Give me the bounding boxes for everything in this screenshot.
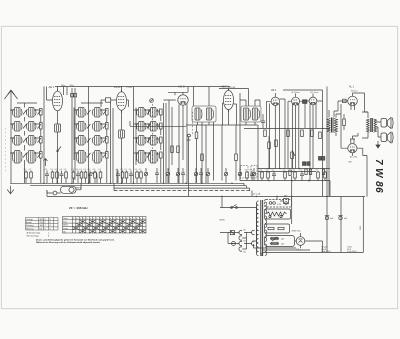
wave trap dashed box 1 <box>241 166 249 179</box>
tube V4 ABC1 <box>224 88 234 112</box>
svg-text:a: a <box>123 218 124 220</box>
coil bank 3 (oscillator coils) <box>137 108 163 164</box>
svg-text:0,1: 0,1 <box>139 169 142 171</box>
svg-text:Druck- und Ziehknopfgeräte gel: Druck- und Ziehknopfgeräte gelten für Vo… <box>36 238 115 241</box>
tube V1 AH1 <box>53 89 63 113</box>
tube V6 ACF <box>292 97 300 105</box>
capacitor under V2 <box>119 130 125 138</box>
svg-text:0,1: 0,1 <box>300 169 303 171</box>
IF transformer IFT2 <box>241 106 261 122</box>
wire detector lines <box>258 87 330 253</box>
coupling resistor <box>343 119 346 126</box>
wires tube V5 <box>267 93 286 169</box>
coupling capacitors top of V1 <box>71 94 74 97</box>
IF transformer IFT1 <box>192 106 216 122</box>
svg-text:0,1: 0,1 <box>88 169 91 171</box>
svg-text:Taste: Taste <box>63 217 68 220</box>
mains switch <box>232 205 237 208</box>
wire bus 4 <box>114 190 252 192</box>
svg-text:0,1: 0,1 <box>50 169 53 171</box>
loudspeaker 1 <box>381 118 393 129</box>
voltage selector plugs <box>239 230 255 254</box>
hum choke loops <box>90 172 98 183</box>
wire IF line <box>186 124 258 126</box>
svg-text:0,1: 0,1 <box>116 169 119 171</box>
component row right labels <box>245 169 326 171</box>
oscillator trimmer <box>150 99 154 103</box>
svg-text:0,1: 0,1 <box>64 169 67 171</box>
wires mains input <box>220 208 257 244</box>
tone control cluster blocks <box>303 157 325 166</box>
coil bank 1 (antenna coils) <box>13 108 43 164</box>
grid resistors V3 <box>177 146 180 153</box>
svg-text:0,1: 0,1 <box>55 169 58 171</box>
speaker field resistor <box>284 199 289 204</box>
component row left (resistors and capacitors) <box>25 171 143 184</box>
svg-text:a: a <box>100 218 101 220</box>
tuning gang dashed link bank 1 <box>5 128 7 172</box>
svg-text:0,1: 0,1 <box>29 169 32 171</box>
svg-text:110: 110 <box>243 230 246 232</box>
svg-text:0,1: 0,1 <box>245 169 248 171</box>
svg-text:Lang: Lang <box>63 228 67 230</box>
grid stopper label V8 <box>343 99 347 102</box>
svg-text:4V 1,1A: 4V 1,1A <box>253 192 261 195</box>
wires output transformer <box>362 112 381 138</box>
svg-text:AL 1 Wa: AL 1 Wa <box>350 155 358 158</box>
svg-text:a: a <box>117 218 118 220</box>
coil bank 2 (RF coils) <box>77 108 109 164</box>
svg-text:a: a <box>97 218 98 220</box>
tube V7 ACF2 <box>309 97 317 105</box>
svg-text:0,1: 0,1 <box>266 169 269 171</box>
wires IFT2 <box>240 100 260 181</box>
svg-text:2,1/20a: 2,1/20a <box>126 87 132 89</box>
svg-text:Heizung: Heizung <box>26 228 33 230</box>
volume potentiometer <box>291 152 294 159</box>
tube V3 AC2 <box>178 95 188 105</box>
tuning indicator box <box>61 186 77 193</box>
trimmer capacitors row <box>144 168 255 183</box>
junction dots antenna line <box>10 109 12 154</box>
svg-text:AB 2: AB 2 <box>271 89 277 92</box>
tube V9 AL1 output 2 <box>348 144 357 153</box>
svg-text:A Gleichrichtg.: A Gleichrichtg. <box>27 231 41 234</box>
field coil box <box>265 236 295 247</box>
interstage transformer <box>327 118 338 133</box>
AVC arrow <box>44 159 48 167</box>
svg-text:NSM 290c: NSM 290c <box>292 231 301 233</box>
wire bus 2 <box>30 186 247 189</box>
filter capacitor 2 <box>339 216 342 219</box>
rectifier filament box <box>265 200 292 208</box>
tube V5 AB2 <box>271 97 279 105</box>
wires tuning indicator <box>47 183 81 193</box>
wire bus 3 <box>114 188 250 191</box>
tone control resistors <box>305 169 307 175</box>
svg-text:a: a <box>80 218 81 220</box>
wires tube V8 <box>334 93 368 118</box>
wires transformer primary <box>253 203 257 254</box>
screen resistor V3 <box>195 132 198 139</box>
svg-text:0,1: 0,1 <box>124 169 127 171</box>
capacitor under V1 <box>55 124 61 132</box>
svg-text:0,1: 0,1 <box>71 169 74 171</box>
wires coil bank 2 <box>74 87 107 184</box>
svg-text:a: a <box>103 218 104 220</box>
wires IFT1 <box>194 87 214 184</box>
ganged tuning dashed link <box>152 104 154 163</box>
wires coil bank 1 <box>11 103 41 183</box>
svg-text:a: a <box>83 218 84 220</box>
heater zigzag resistor <box>267 212 287 216</box>
wire top bus right <box>283 89 323 91</box>
mains transformer <box>256 200 266 256</box>
wire AVC extension left <box>130 121 186 126</box>
wire antenna feed <box>10 103 12 183</box>
svg-text:Kurz: Kurz <box>63 220 67 223</box>
svg-text:a: a <box>143 218 144 220</box>
svg-text:150: 150 <box>243 241 246 243</box>
svg-text:0,1: 0,1 <box>272 169 275 171</box>
svg-text:AH 1: AH 1 <box>49 85 55 89</box>
wire chassis bus 1b right <box>240 180 330 182</box>
svg-text:Wechselspg.: Wechselspg. <box>27 236 40 238</box>
ground output <box>377 141 379 145</box>
svg-text:Wa-Krst: Wa-Krst <box>351 89 358 92</box>
capacitor detector <box>261 120 265 122</box>
svg-text:a: a <box>110 218 111 220</box>
svg-text:a: a <box>133 218 134 220</box>
junction dots buses <box>43 180 328 197</box>
gang dashed link V3 <box>192 112 194 136</box>
antenna symbol <box>5 90 18 103</box>
wires interstage transformer <box>329 110 341 196</box>
svg-text:A27: A27 <box>349 160 352 163</box>
wire screen grid vertical <box>205 125 207 183</box>
svg-text:0,1: 0,1 <box>79 169 82 171</box>
oscillator padder capacitors <box>155 168 203 183</box>
dial lamp <box>53 191 57 195</box>
filter capacitor 1 <box>325 216 328 219</box>
svg-text:Anode: Anode <box>26 221 33 224</box>
component row left labels <box>24 169 142 171</box>
wires tube V4 <box>219 89 249 181</box>
ground (earth arrow) <box>7 186 14 194</box>
wave trap dashed box 2 <box>251 166 257 179</box>
voltage table <box>26 218 59 231</box>
svg-text:a: a <box>107 218 108 220</box>
bias network box <box>265 224 290 233</box>
switch position table <box>63 217 147 234</box>
resistors mid right <box>301 130 304 137</box>
svg-text:Mittel: Mittel <box>63 224 68 227</box>
svg-text:0,1: 0,1 <box>83 169 86 171</box>
wire bus 5 (heater line) <box>47 190 365 196</box>
svg-text:0,1: 0,1 <box>283 169 286 171</box>
wires rectifier <box>292 176 341 248</box>
svg-text:220: 220 <box>243 252 246 254</box>
junction dots detector <box>268 128 323 182</box>
svg-text:90/1,4W: 90/1,4W <box>229 87 236 89</box>
rectifier tube V10 AZ1 <box>296 237 305 246</box>
svg-text:a: a <box>90 218 91 220</box>
svg-text:AM 80: AM 80 <box>76 187 83 190</box>
coupling box between V6 V7 <box>303 100 307 104</box>
svg-text:0,1: 0,1 <box>93 169 96 171</box>
wire PS right verticals <box>341 197 363 253</box>
svg-text:0,1: 0,1 <box>45 169 48 171</box>
wires tube V3 <box>164 87 189 184</box>
tube V8 AL1 output <box>348 96 358 106</box>
svg-text:0,1µF 250V~: 0,1µF 250V~ <box>321 251 331 253</box>
component row right <box>246 171 327 181</box>
wires tube V6 <box>288 94 305 169</box>
svg-text:a: a <box>73 218 74 220</box>
svg-text:0,1: 0,1 <box>120 169 123 171</box>
svg-text:0,1µF 250V~: 0,1µF 250V~ <box>347 251 357 253</box>
svg-text:0,1: 0,1 <box>129 169 132 171</box>
terminal TA <box>188 134 191 137</box>
wires tube V1 <box>44 87 75 184</box>
loudspeaker 2 <box>381 132 393 143</box>
svg-text:0,1: 0,1 <box>316 169 319 171</box>
wires tube V9 <box>341 133 367 197</box>
wire mains switch line <box>220 196 257 207</box>
svg-text:a: a <box>120 218 121 220</box>
svg-text:a: a <box>77 218 78 220</box>
svg-text:AL 1: AL 1 <box>349 86 355 89</box>
svg-text:a: a <box>127 218 128 220</box>
svg-text:0,1: 0,1 <box>260 169 263 171</box>
wires coil bank 3 <box>134 87 164 184</box>
svg-text:0,1: 0,1 <box>135 169 138 171</box>
wire top bus <box>55 86 230 88</box>
wires tube V7 <box>307 94 323 181</box>
fuse 1 <box>230 231 234 235</box>
grid capacitor V2 <box>106 98 111 102</box>
svg-text:0,1: 0,1 <box>76 169 79 171</box>
resistor detector 1 <box>268 142 271 149</box>
svg-text:a: a <box>130 218 131 220</box>
svg-text:a: a <box>113 218 114 220</box>
wire AVC line <box>244 128 330 130</box>
wire PS top feed <box>277 196 292 199</box>
svg-text:a: a <box>93 218 94 220</box>
svg-text:0,1: 0,1 <box>98 169 101 171</box>
svg-text:a: a <box>87 218 88 220</box>
svg-text:W 1,2/mm: W 1,2/mm <box>310 92 319 94</box>
svg-text:6,3V: 6,3V <box>277 204 282 206</box>
svg-text:0,1: 0,1 <box>59 169 62 171</box>
svg-text:ZF = 468 kHz: ZF = 468 kHz <box>69 206 88 210</box>
output transformer <box>367 118 377 132</box>
heater resistor network box <box>265 209 291 219</box>
tube V2 ACH1 <box>117 90 127 113</box>
svg-text:0,1: 0,1 <box>293 169 296 171</box>
wire chassis bus 1 <box>10 183 244 186</box>
svg-text:7 W 86: 7 W 86 <box>373 159 384 193</box>
svg-text:a: a <box>140 218 141 220</box>
resistor detector 2 <box>275 140 278 147</box>
svg-text:250V: 250V <box>360 225 362 230</box>
svg-text:0,1: 0,1 <box>323 169 326 171</box>
cathode switch V1 <box>58 147 62 152</box>
wire PS bottom <box>254 241 364 256</box>
svg-text:Schirmg.: Schirmg. <box>26 225 34 227</box>
svg-text:0,1: 0,1 <box>24 169 27 171</box>
svg-text:Während der Messung muß der Ka: Während der Messung muß der Kathodenstra… <box>36 241 101 244</box>
wires tube V2 <box>101 87 129 184</box>
fuse 2 <box>232 242 236 246</box>
svg-text:a: a <box>137 218 138 220</box>
svg-text:0,1: 0,1 <box>250 169 253 171</box>
resistors below IFT1 <box>201 154 204 161</box>
svg-text:Lautspr.: Lautspr. <box>26 218 34 221</box>
